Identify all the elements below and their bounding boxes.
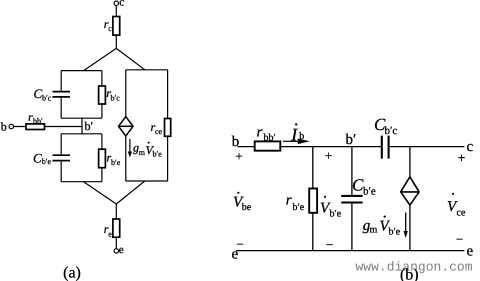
svg-text:r: r [286, 193, 292, 209]
svg-text:b′c: b′c [111, 94, 121, 103]
svg-text:b′e: b′e [363, 186, 376, 198]
svg-text:−: − [326, 237, 333, 252]
svg-text:c: c [467, 139, 474, 155]
svg-text:bb′: bb′ [33, 116, 43, 125]
svg-text:be: be [242, 202, 252, 213]
svg-text:b′: b′ [85, 119, 94, 133]
svg-text:b′e: b′e [330, 209, 342, 220]
svg-text:b′e: b′e [153, 150, 163, 159]
svg-text:ce: ce [155, 127, 163, 136]
svg-text:bb′: bb′ [264, 133, 276, 144]
svg-text:c: c [108, 24, 112, 33]
svg-text:e: e [467, 244, 474, 260]
svg-text:b′: b′ [346, 132, 357, 148]
svg-text:r: r [257, 125, 263, 141]
svg-text:(b): (b) [400, 267, 419, 281]
svg-text:b: b [232, 134, 240, 150]
svg-text:c: c [119, 0, 124, 9]
svg-text:b′c: b′c [42, 93, 52, 102]
svg-text:m: m [370, 225, 378, 236]
svg-text:C: C [33, 151, 42, 166]
svg-text:−: − [236, 236, 243, 251]
svg-text:e: e [108, 229, 112, 238]
svg-text:e: e [119, 244, 124, 256]
svg-text:b′e: b′e [111, 158, 121, 167]
svg-text:b: b [1, 120, 7, 134]
svg-text:(a): (a) [63, 265, 81, 281]
svg-text:b′e: b′e [293, 202, 305, 213]
svg-text:+: + [458, 150, 465, 165]
svg-text:b′e: b′e [389, 227, 401, 238]
svg-text:b′c: b′c [385, 125, 398, 137]
svg-text:ce: ce [457, 207, 466, 218]
svg-text:−: − [456, 231, 463, 246]
svg-text:+: + [235, 149, 242, 164]
svg-text:b: b [299, 131, 304, 142]
svg-text:+: + [325, 148, 332, 163]
svg-text:I: I [290, 125, 298, 145]
svg-text:b′e: b′e [42, 157, 52, 166]
